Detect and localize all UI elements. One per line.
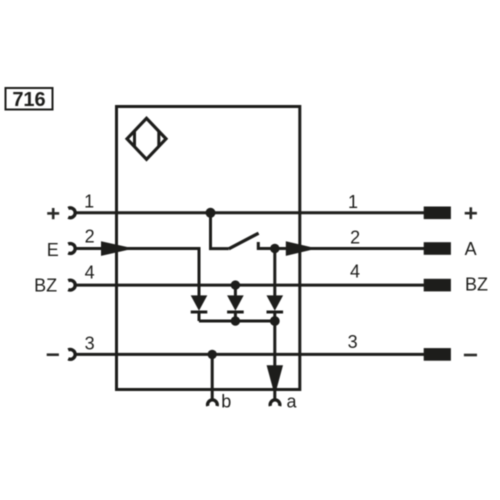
wire from wire 3 down to terminal b	[211, 354, 214, 399]
svg-text:2: 2	[350, 228, 360, 248]
output arrow a	[267, 365, 283, 395]
terminal BZ right	[424, 279, 451, 292]
wire 3 (-)	[75, 353, 425, 356]
wire from bus down to terminal a	[273, 321, 276, 399]
svg-text:b: b	[221, 391, 231, 411]
diode D3	[267, 295, 284, 321]
wire 1 (+)	[75, 211, 425, 214]
switch S1 fixed contact and wire 2 output segment	[258, 242, 424, 249]
svg-text:1: 1	[348, 192, 358, 212]
svg-text:A: A	[465, 239, 477, 259]
svg-text:a: a	[286, 391, 297, 411]
wire 2 E input segment turning down to diode D1	[75, 249, 200, 297]
svg-text:4: 4	[85, 263, 95, 283]
label - right	[464, 354, 477, 357]
svg-text:716: 716	[12, 89, 45, 111]
svg-text:BZ: BZ	[465, 275, 488, 295]
label + left	[47, 208, 59, 219]
output arrow on wire A	[286, 241, 317, 256]
wire from node A down to diode D3	[273, 249, 276, 297]
diode D1	[191, 295, 208, 321]
terminal A right	[424, 242, 451, 255]
junction dot on bus node a branch	[270, 316, 280, 326]
connector pin E left	[68, 244, 75, 254]
device outline	[117, 107, 300, 390]
connector pin BZ left	[68, 280, 75, 290]
diode D2	[227, 285, 244, 321]
svg-text:3: 3	[348, 332, 358, 352]
cathode bus wire	[199, 320, 275, 323]
junction dot on wire 4 for diode D2	[231, 280, 240, 289]
connector pin - left	[68, 350, 75, 360]
terminal + right	[424, 207, 451, 220]
terminal cup b	[208, 400, 218, 406]
junction dot on wire 1 (switch pole)	[206, 208, 216, 218]
svg-text:2: 2	[85, 227, 95, 247]
connector pin + left	[68, 208, 75, 218]
terminal - right	[424, 348, 451, 361]
svg-text:3: 3	[85, 333, 95, 353]
junction dot on wire 3 for terminal b	[208, 350, 217, 359]
terminal cup a	[270, 400, 280, 406]
proximity sensor symbol	[127, 118, 166, 159]
type label 716	[6, 88, 53, 111]
switch S1 blade	[229, 233, 259, 249]
svg-text:E: E	[47, 240, 59, 260]
input arrow on wire E	[101, 241, 134, 256]
svg-text:4: 4	[350, 262, 360, 282]
junction dot on bus for diode D2	[231, 316, 240, 325]
svg-text:BZ: BZ	[34, 275, 57, 295]
label - left	[47, 353, 59, 356]
wire 4 (BZ)	[75, 284, 425, 287]
switch S1 pole lead	[211, 213, 229, 249]
label + right	[465, 207, 477, 219]
svg-text:1: 1	[84, 191, 94, 211]
junction dot node A output	[270, 244, 279, 253]
